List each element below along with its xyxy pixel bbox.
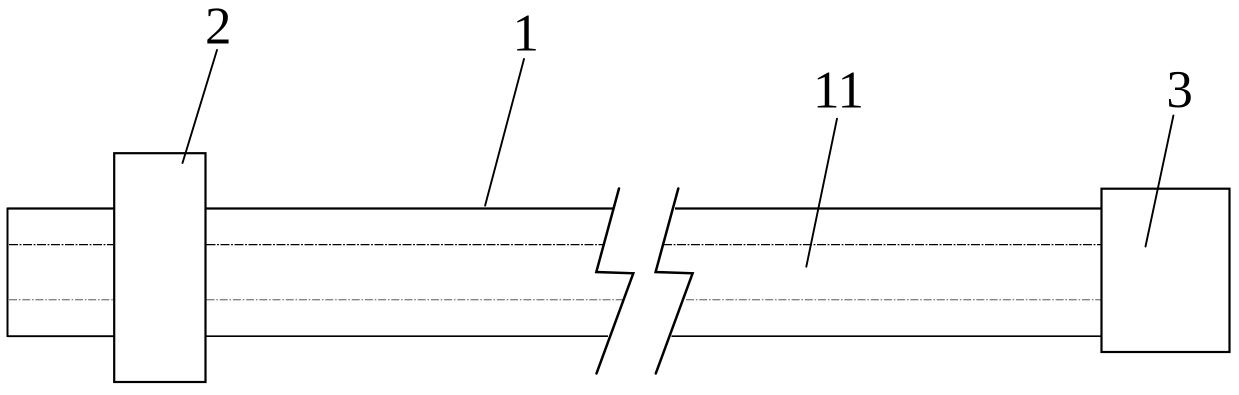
svg-text:1: 1 — [512, 4, 539, 62]
svg-text:3: 3 — [1166, 61, 1193, 119]
svg-text:2: 2 — [205, 0, 232, 55]
svg-text:11: 11 — [813, 62, 864, 120]
